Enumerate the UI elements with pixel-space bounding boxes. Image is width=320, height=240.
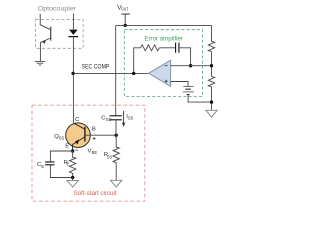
Q_SS emitter stroke (73, 137, 85, 151)
wire feedback mid (159, 47, 175, 49)
diode cathode bar (69, 36, 79, 38)
wire base (85, 134, 116, 136)
wire top rail (116, 24, 212, 26)
transistor Q_SS body (66, 123, 91, 148)
resistor feedback (141, 45, 160, 51)
op-amp minus sign (165, 65, 168, 67)
capacitor C_SS (110, 116, 122, 120)
wire V_OUT lead (124, 14, 126, 25)
svg-text:SS: SS (107, 155, 113, 160)
ground arrow (below divider) (206, 110, 217, 117)
svg-text:Optocoupler: Optocoupler (38, 6, 76, 13)
wire C_SS bottom (115, 120, 117, 135)
ground arrow (below R_SS) (111, 180, 122, 187)
resistor R_SS (113, 135, 119, 180)
wire divider bottom (211, 87, 213, 110)
wire feedback right leg (179, 48, 191, 66)
wire non-inverting input (171, 82, 189, 87)
resistor divider upper (208, 41, 214, 51)
Q_SS emitter arrow (75, 139, 79, 144)
emitter arrow (opto) (42, 40, 46, 44)
Q_SS collector stroke (74, 123, 85, 129)
svg-text:E: E (65, 143, 69, 149)
wire divider top (211, 25, 213, 41)
svg-text:SS: SS (128, 115, 134, 120)
wire (LED cathode down to SEC COMP node) (72, 37, 74, 74)
battery Vref (183, 86, 194, 94)
wire battery return (188, 95, 211, 103)
wire V_OUT drop to soft-start (crosses SEC COMP) (115, 25, 117, 115)
junction feedback / inverting input (189, 64, 192, 67)
svg-text:E: E (41, 164, 44, 169)
V_OUT terminal bar (121, 13, 129, 15)
wire divider mid (211, 52, 213, 77)
capacitor feedback (176, 43, 179, 53)
junction base / C_SS / R_SS (115, 134, 118, 137)
junction V_OUT tap (124, 24, 127, 27)
svg-text:SS: SS (106, 117, 112, 122)
op-amp U1 (149, 60, 171, 86)
wire (LED anode stub) (72, 14, 74, 30)
ground arrow (below R_E) (67, 180, 78, 187)
svg-text:BE: BE (92, 150, 98, 155)
svg-text:OUT: OUT (121, 6, 128, 11)
op-amp plus sign (165, 80, 168, 83)
junction SEC COMP left (71, 72, 74, 75)
junction feedback tap on output (132, 72, 135, 75)
wire feedback left leg (134, 48, 141, 74)
wire inverting input (171, 65, 212, 67)
junction R_E bottom (71, 176, 74, 179)
junction divider bottom (210, 100, 213, 103)
ground (earth, under opto transistor) (35, 61, 45, 65)
wire collector (SEC COMP to Q_SS) (72, 73, 74, 123)
svg-text:SS: SS (59, 135, 65, 140)
svg-text:Soft-start circuit: Soft-start circuit (74, 190, 117, 197)
resistor divider lower (208, 77, 214, 87)
junction divider midpoint (210, 64, 213, 67)
phototransistor Q (opto) (40, 14, 51, 61)
error amplifier box (124, 30, 202, 97)
capacitor C_E (45, 162, 54, 165)
wire C_E bottom (50, 165, 72, 178)
svg-text:Error amplifier: Error amplifier (144, 36, 183, 43)
current arrow I_SS (123, 111, 125, 123)
V_BE minus (75, 149, 78, 151)
optocoupler box (36, 20, 84, 49)
soft-start box (32, 105, 145, 201)
wire emitter to C_E (50, 151, 72, 162)
resistor R_E (70, 151, 76, 178)
wire SEC COMP rail (op-amp output) (73, 72, 149, 74)
svg-text:B: B (92, 126, 96, 132)
V_BE plus (93, 137, 96, 140)
wire to ground arrow (72, 178, 74, 181)
LED diode (opto) (69, 30, 78, 35)
Q_SS base bar (84, 127, 86, 142)
junction emitter (71, 149, 74, 152)
svg-text:SEC COMP: SEC COMP (82, 63, 110, 70)
svg-text:E: E (67, 162, 70, 167)
svg-text:C: C (75, 117, 80, 123)
